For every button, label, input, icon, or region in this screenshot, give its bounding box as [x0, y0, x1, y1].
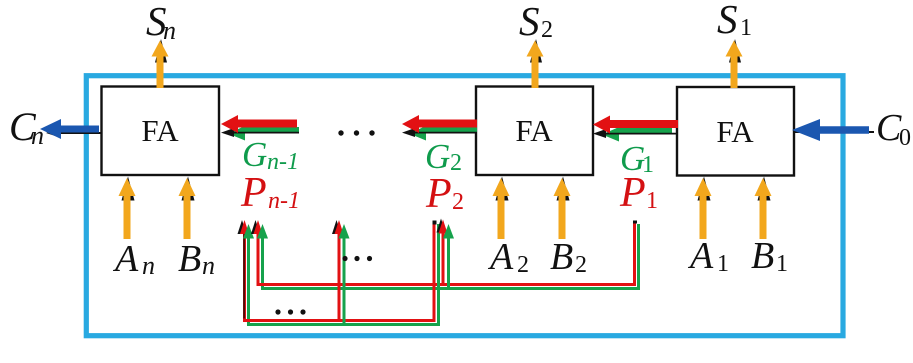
svg-text:n-1: n-1	[268, 188, 300, 214]
svg-text:2: 2	[450, 150, 462, 176]
svg-text:B: B	[550, 236, 573, 278]
svg-text:P: P	[425, 171, 452, 217]
svg-text:G: G	[242, 135, 267, 174]
svg-text:P: P	[240, 170, 267, 216]
svg-text:n: n	[142, 251, 155, 280]
svg-text:S: S	[717, 0, 738, 42]
svg-text:n-1: n-1	[267, 149, 299, 175]
svg-text:A: A	[112, 238, 139, 280]
svg-text:n: n	[163, 16, 176, 45]
svg-text:2: 2	[575, 252, 587, 278]
svg-text:FA: FA	[515, 113, 553, 148]
svg-text:2: 2	[452, 189, 464, 215]
svg-text:0: 0	[899, 125, 911, 151]
svg-text:n: n	[31, 121, 44, 150]
svg-text:2: 2	[541, 17, 553, 43]
svg-text:A: A	[487, 236, 514, 278]
svg-text:2: 2	[517, 252, 529, 278]
svg-text:A: A	[687, 235, 714, 277]
svg-text:FA: FA	[141, 113, 179, 148]
svg-text:1: 1	[717, 251, 729, 277]
svg-text:B: B	[751, 235, 774, 277]
svg-text:1: 1	[646, 188, 658, 214]
svg-text:P: P	[619, 170, 646, 216]
svg-text:1: 1	[776, 251, 788, 277]
svg-text:FA: FA	[716, 114, 754, 149]
svg-text:B: B	[178, 238, 201, 280]
svg-text:S: S	[519, 0, 540, 44]
svg-text:1: 1	[740, 15, 752, 41]
svg-text:n: n	[202, 251, 215, 280]
